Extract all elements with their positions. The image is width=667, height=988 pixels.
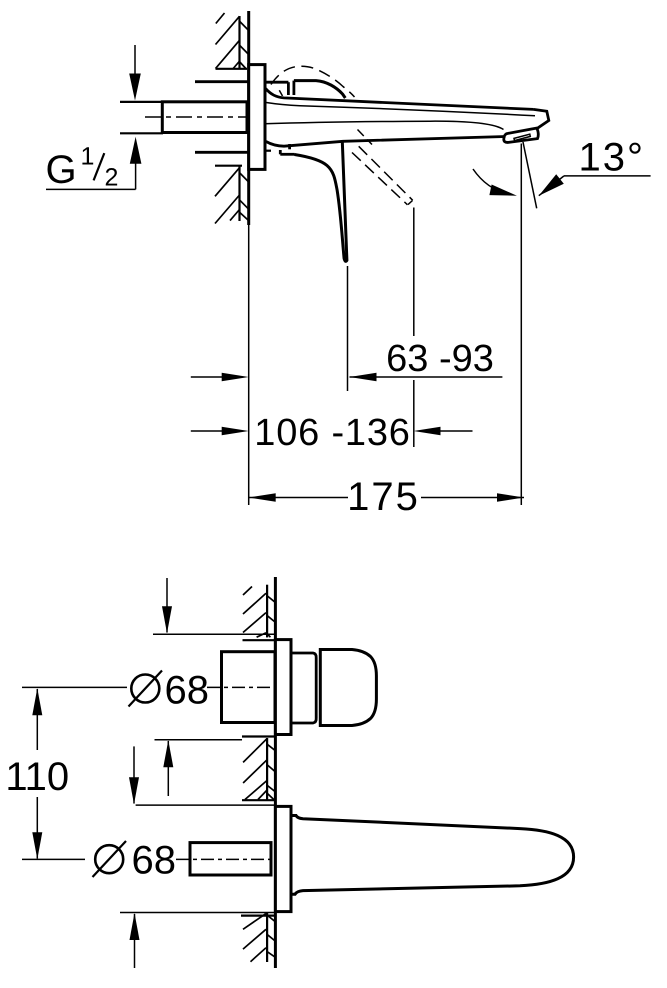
svg-text:110: 110 (5, 755, 69, 799)
svg-text:175: 175 (347, 475, 420, 519)
svg-text:68: 68 (132, 839, 177, 883)
svg-text:106 -136: 106 -136 (254, 412, 410, 454)
svg-text:G: G (46, 148, 77, 192)
svg-text:2: 2 (105, 163, 119, 191)
svg-text:63 -93: 63 -93 (386, 338, 494, 380)
svg-text:68: 68 (165, 669, 210, 713)
svg-text:13°: 13° (579, 136, 646, 180)
svg-text:1: 1 (81, 143, 95, 171)
